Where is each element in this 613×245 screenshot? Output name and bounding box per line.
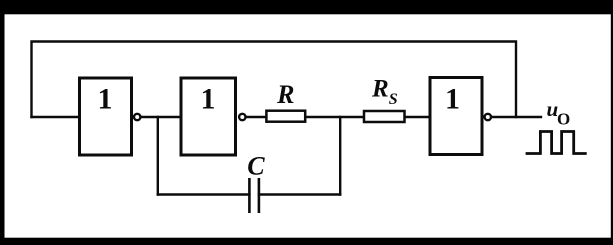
wire Rs to gate D3 [405, 116, 430, 118]
wire R to Rs [306, 116, 364, 118]
gate U3 output bubble [485, 114, 491, 120]
wire node A drop (D1 out to C) [157, 117, 159, 195]
gate U1 output bubble [134, 114, 140, 120]
resistor Rs body [364, 111, 405, 122]
svg-text:1: 1 [98, 82, 113, 115]
square wave output symbol [527, 132, 585, 154]
gate U3 (inverter box) [430, 78, 482, 155]
wire input to gate D1 [32, 116, 79, 118]
gate U1 (inverter box) [80, 78, 132, 155]
wire D2 output to resistor R [246, 116, 266, 118]
svg-text:R: R [276, 80, 294, 109]
wire feedback loop (top) [32, 42, 517, 118]
capacitor C plates [249, 178, 259, 213]
svg-text:O: O [557, 110, 570, 129]
wire bottom left to capacitor [158, 193, 250, 195]
gate U2 (inverter box) [181, 78, 236, 155]
svg-text:C: C [247, 152, 265, 181]
wire D1 output to D2 input [141, 116, 181, 118]
wire node B drop (R-Rs junction to C) [339, 117, 341, 195]
gate U2 output bubble [239, 114, 245, 120]
wire output uo [492, 116, 541, 118]
wire capacitor to bottom right [259, 193, 340, 195]
resistor R body [266, 111, 305, 122]
svg-text:1: 1 [201, 82, 216, 115]
svg-text:1: 1 [445, 82, 460, 115]
